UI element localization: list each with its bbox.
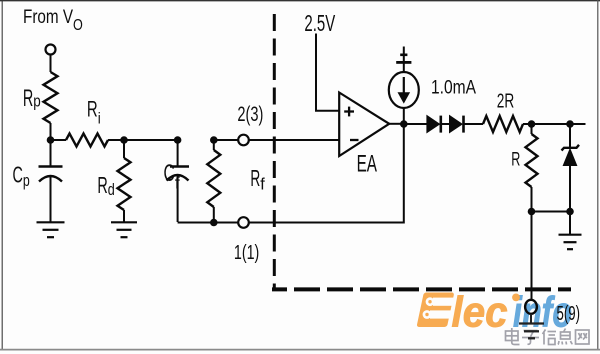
wire node J down to ground	[569, 212, 571, 235]
border bottom gray	[0, 349, 600, 351]
node H	[566, 120, 574, 128]
dashed boundary horizontal	[272, 287, 571, 291]
svg-text:C: C	[164, 160, 175, 187]
border top	[0, 0, 600, 2]
dashed boundary vertical	[273, 14, 276, 289]
svg-text:1.0mA: 1.0mA	[431, 77, 476, 99]
char xin	[543, 330, 557, 345]
current source arrow	[398, 77, 411, 104]
watermark logo E block	[416, 293, 454, 328]
border right	[597, 0, 599, 349]
wire node G to node H	[532, 123, 571, 125]
node B	[120, 136, 128, 144]
char dian	[506, 328, 520, 345]
terminal 5(9)	[525, 300, 537, 314]
op-amp minus sign	[350, 139, 359, 141]
wire Rf bottom	[213, 207, 215, 223]
watermark chinese text 电子信息网	[506, 328, 590, 345]
wire op-amp output to node F	[389, 123, 404, 125]
wire node D to terminal 2(3)	[214, 139, 238, 141]
zener diode Z1	[562, 145, 580, 166]
resistor R	[526, 134, 538, 187]
ground (zener)	[559, 235, 582, 250]
node G	[528, 120, 536, 128]
wire node A to Ri	[51, 139, 67, 141]
capacitor Cp	[39, 167, 63, 223]
wire node G down to R	[531, 124, 533, 134]
watermark i dot orange	[512, 294, 520, 302]
svg-text:2.5V: 2.5V	[304, 10, 335, 36]
zener diode wire top	[569, 124, 571, 147]
wire node D down to Rf	[213, 140, 215, 150]
node F output	[400, 120, 408, 128]
svg-text:R: R	[97, 172, 107, 198]
wire node H stub right	[570, 123, 586, 125]
wire Rd to ground	[123, 210, 125, 222]
svg-text:lec: lec	[452, 289, 508, 337]
border left	[1, 0, 3, 349]
node J	[566, 208, 574, 216]
svg-text:p: p	[23, 171, 30, 190]
svg-text:f: f	[175, 174, 180, 193]
wire node I down to terminal 5(9)	[531, 212, 533, 302]
char zi	[522, 331, 539, 345]
bottom feedback wire left corner	[178, 222, 239, 224]
svg-text:5(9): 5(9)	[557, 303, 581, 325]
resistor Rp	[44, 72, 58, 123]
wire terminal 1(1) to feedback	[249, 124, 404, 223]
svg-text:p: p	[33, 91, 41, 110]
svg-text:d: d	[108, 180, 115, 199]
wire Ri to node B	[108, 139, 124, 141]
svg-text:EA: EA	[357, 150, 377, 177]
zener wire bottom to node J	[569, 166, 571, 212]
char wang	[576, 330, 590, 344]
wire node I to node J	[532, 211, 571, 213]
wire 2R to node G	[523, 123, 532, 125]
capacitor Cf	[167, 167, 190, 223]
wire current source to node F	[403, 108, 405, 124]
svg-text:1(1): 1(1)	[234, 242, 259, 264]
wire Rp to node A	[50, 123, 52, 140]
terminal 1(1)	[238, 217, 249, 228]
wire terminal to ground	[530, 314, 532, 324]
svg-text:R: R	[23, 85, 33, 112]
svg-text:R: R	[87, 96, 98, 121]
wire node F to diode D1	[404, 123, 427, 125]
resistor 2R	[483, 116, 523, 132]
diode D1	[427, 116, 441, 133]
wire node B to node C	[124, 139, 178, 141]
wire node A down to Cp	[50, 140, 52, 166]
svg-text:R: R	[250, 165, 260, 191]
ground (terminal 5(9))	[519, 324, 544, 339]
node C	[174, 136, 182, 144]
svg-text:R: R	[511, 150, 520, 171]
wire D1 to D2	[441, 123, 450, 125]
svg-text:C: C	[13, 161, 23, 187]
diode D2	[450, 116, 464, 133]
node D	[210, 136, 218, 144]
resistor Rd	[118, 158, 131, 210]
op-amp EA	[339, 93, 389, 157]
wire 2.5V to op-amp plus input	[316, 34, 339, 111]
wire R to node I	[531, 187, 533, 212]
svg-text:From V: From V	[23, 7, 73, 28]
node A	[47, 136, 55, 144]
wire D2 to 2R	[464, 123, 484, 125]
wire terminal 2(3) to op-amp minus input	[249, 139, 339, 141]
wire node C down to Cf	[177, 140, 179, 166]
svg-text:O: O	[73, 17, 83, 34]
op-amp plus sign	[344, 107, 354, 117]
terminal 2(3)	[238, 135, 249, 146]
node E bottom of Rf	[210, 219, 218, 227]
supply plus symbol above current source	[396, 47, 411, 73]
resistor Ri	[66, 134, 108, 147]
ground (Rd)	[111, 222, 137, 237]
watermark logo slots	[423, 297, 454, 319]
node I	[528, 208, 536, 216]
svg-text:i: i	[98, 111, 101, 128]
current source 1.0mA	[389, 72, 419, 108]
svg-text:f: f	[260, 175, 265, 194]
char xi	[558, 329, 573, 345]
terminal from VO	[46, 45, 56, 55]
svg-text:2(3): 2(3)	[237, 103, 263, 126]
ground (Cp)	[37, 222, 65, 237]
svg-text:2R: 2R	[497, 89, 515, 112]
resistor Rf	[207, 150, 220, 207]
wire terminal to Rp	[50, 55, 52, 73]
wire node B down to Rd	[123, 140, 125, 158]
